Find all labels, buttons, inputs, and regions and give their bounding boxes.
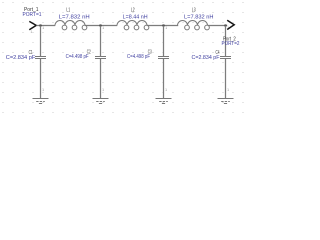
svg-text:L1: L1 [66,8,70,14]
svg-text:1: 1 [227,88,229,92]
svg-text:L=7.832 nH: L=7.832 nH [59,14,90,20]
wire node to C3 [163,26,165,57]
port P1 arrow symbol [29,21,36,29]
svg-text:1: 1 [42,26,44,30]
wire port P1 to node A [36,25,55,27]
svg-text:L=7.832 nH: L=7.832 nH [184,14,214,20]
svg-text:L2: L2 [131,8,135,14]
ground G2 [93,99,109,104]
junction node at top of C3 [162,24,164,26]
wire L3 to port P2 through node D [208,25,227,27]
svg-text:1: 1 [165,26,167,30]
wire node to C1 [40,26,42,57]
wire L1 to L2 through node B [85,25,117,27]
svg-text:L=8.44 nH: L=8.44 nH [123,14,148,20]
svg-text:1: 1 [30,30,32,34]
wire L2 to L3 through node C [147,25,178,27]
svg-text:C=4.498 pF: C=4.498 pF [127,54,150,60]
junction node at top of C2 [99,24,101,26]
grid dots (decorative) [2,2,244,113]
svg-text:1: 1 [102,26,104,30]
capacitor C4 [220,57,231,59]
inductor L3 [178,21,210,30]
wire C1 to ground [40,59,42,99]
wire C3 to ground [163,59,165,99]
capacitor C2 [95,57,106,59]
inductor L2 [117,21,149,30]
wire C4 to ground [225,59,227,99]
ground G3 [156,99,172,104]
svg-text:C=4.498 pF: C=4.498 pF [66,54,89,60]
capacitor C3 [158,57,169,59]
junction node at top of C4 [224,24,226,26]
wire node to C4 [225,26,227,57]
ground G4 [218,99,234,104]
port P2 arrow symbol [227,20,234,29]
svg-text:1: 1 [165,88,167,92]
wire node to C2 [100,26,102,57]
svg-text:C=2.834 pF: C=2.834 pF [6,55,36,61]
inductor L1 [55,21,87,30]
svg-text:C=2.834 pF: C=2.834 pF [192,55,220,61]
junction node at top of C1 [39,24,41,26]
svg-text:L3: L3 [192,8,196,14]
wire C2 to ground [100,59,102,99]
svg-text:1: 1 [102,88,104,92]
capacitor C1 [35,57,46,59]
svg-text:1: 1 [42,88,44,92]
svg-text:PORT=2: PORT=2 [222,41,240,47]
ground G1 [33,99,49,104]
svg-text:PORT=1: PORT=1 [23,12,42,18]
